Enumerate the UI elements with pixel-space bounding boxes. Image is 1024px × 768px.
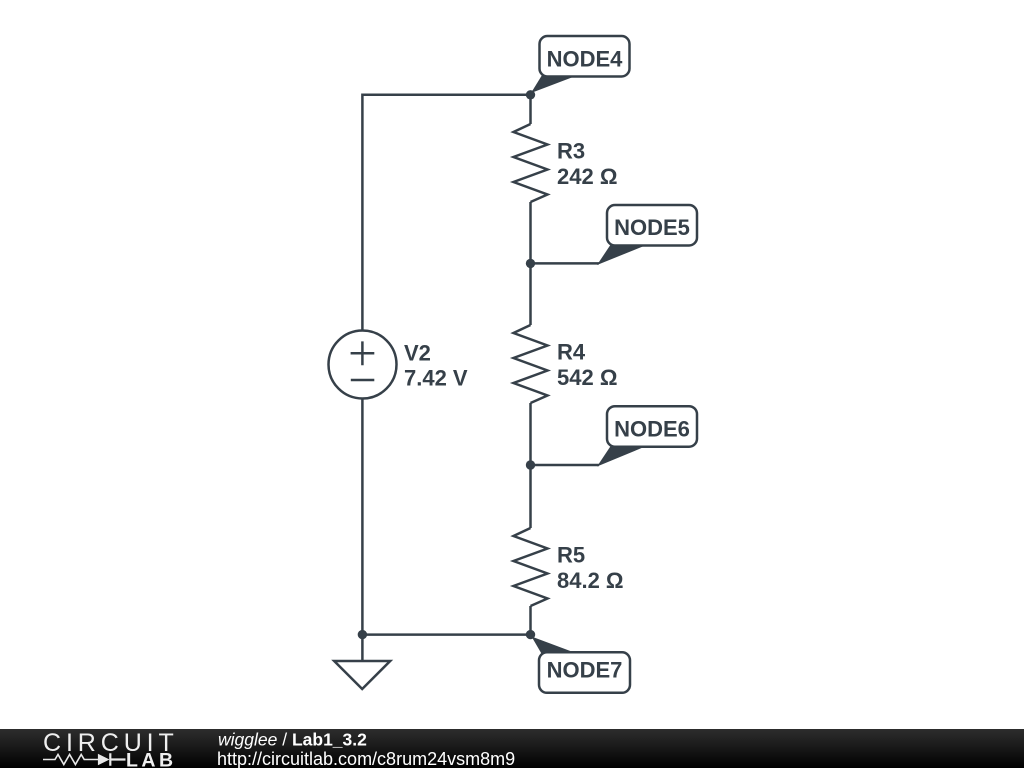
NODE6 flag bubble: [607, 406, 697, 447]
NODE6 wire stub: [531, 464, 600, 467]
svg-text:NODE7: NODE7: [547, 658, 623, 683]
junction node NODE7 dot: [526, 630, 535, 639]
svg-text:NODE5: NODE5: [614, 215, 690, 240]
resistor R3 zigzag: [514, 124, 548, 202]
NODE5 wire stub: [531, 262, 600, 265]
NODE4 flag tail: [531, 74, 577, 94]
junction node NODE6 dot: [526, 460, 535, 469]
CircuitLab logo resistor-diode wire: [43, 755, 99, 765]
svg-text:V2: V2: [404, 341, 431, 366]
svg-text:542 Ω: 542 Ω: [557, 365, 617, 390]
ground symbol stem: [361, 635, 364, 661]
NODE7 flag bubble: [539, 652, 630, 693]
CircuitLab logo diode triangle: [98, 754, 110, 766]
svg-text:LAB: LAB: [126, 750, 177, 768]
svg-text:NODE6: NODE6: [614, 416, 690, 441]
svg-text:R5: R5: [557, 543, 585, 568]
CircuitLab logo diode cathode bar and lead: [110, 753, 125, 765]
wire left vertical lower (V2 bottom lead): [361, 399, 364, 635]
wire right vertical R4 to R5 through NODE6: [529, 403, 532, 528]
junction node ground dot: [358, 630, 367, 639]
wire bottom horizontal from ground node to NODE7: [362, 633, 530, 636]
footer bar: [0, 729, 1024, 768]
resistor R5 zigzag: [514, 528, 548, 606]
svg-text:242 Ω: 242 Ω: [557, 164, 617, 189]
NODE4 flag bubble: [540, 36, 630, 77]
V2 minus sign: [351, 379, 375, 382]
resistor R4 zigzag: [514, 325, 548, 403]
wire right vertical stub R5 to NODE7: [529, 606, 532, 635]
wire left vertical upper (V2 top lead): [361, 94, 364, 331]
svg-text:R4: R4: [557, 340, 586, 365]
wire top horizontal from V2 top to NODE4: [362, 94, 530, 97]
svg-text:wigglee / Lab1_3.2: wigglee / Lab1_3.2: [218, 729, 367, 749]
wire right vertical R3 to R4 through NODE5: [529, 202, 532, 325]
voltage source V2 circle: [329, 331, 397, 399]
NODE6 flag tail: [597, 446, 644, 467]
svg-text:R3: R3: [557, 139, 585, 164]
NODE7 flag tail: [532, 637, 578, 655]
svg-text:84.2 Ω: 84.2 Ω: [557, 568, 624, 593]
svg-text:7.42 V: 7.42 V: [404, 366, 468, 391]
NODE5 flag bubble: [607, 205, 697, 246]
svg-text:NODE4: NODE4: [547, 47, 624, 72]
junction node NODE4 dot: [526, 90, 535, 99]
junction node NODE5 dot: [526, 259, 535, 268]
NODE5 flag tail: [597, 244, 644, 265]
ground symbol triangle: [334, 661, 390, 689]
V2 plus sign: [351, 341, 375, 365]
wire right vertical stub NODE4 to R3: [529, 95, 532, 124]
svg-text:http://circuitlab.com/c8rum24v: http://circuitlab.com/c8rum24vsm8m9: [217, 749, 515, 768]
